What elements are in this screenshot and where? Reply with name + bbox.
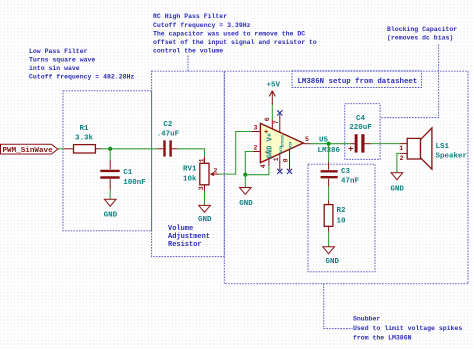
annotation box high pass filter xyxy=(152,71,225,256)
wire R1 to C2 xyxy=(101,148,158,150)
wire RV1 wiper to op-amp pin 3 xyxy=(219,132,252,175)
svg-text:GND: GND xyxy=(326,258,340,266)
wire C1 to ground xyxy=(109,190,111,200)
annotation box low pass filter xyxy=(63,91,152,231)
svg-text:control the volume: control the volume xyxy=(153,48,223,55)
svg-text:GND: GND xyxy=(390,185,404,193)
svg-text:R2: R2 xyxy=(337,207,347,215)
annotation box datasheet label xyxy=(292,71,422,88)
svg-text:offset of the input signal and: offset of the input signal and resistor … xyxy=(153,39,317,46)
svg-text:Blocking Capacitor: Blocking Capacitor xyxy=(387,26,457,33)
svg-text:4: 4 xyxy=(260,164,267,168)
wire R2 to ground xyxy=(328,232,330,247)
svg-text:Cutoff frequency = 482.28Hz: Cutoff frequency = 482.28Hz xyxy=(29,74,134,81)
junction node A (R1/C1) xyxy=(108,147,112,151)
svg-text:(removes dc bias): (removes dc bias) xyxy=(387,35,453,42)
svg-text:RC High Pass Filter: RC High Pass Filter xyxy=(153,13,227,20)
pin 5 stub xyxy=(303,136,310,144)
svg-text:GAIN: GAIN xyxy=(279,146,283,154)
svg-text:8: 8 xyxy=(283,158,290,162)
svg-text:Speaker: Speaker xyxy=(436,153,468,161)
svg-text:RV1: RV1 xyxy=(183,165,197,173)
svg-text:3.3k: 3.3k xyxy=(75,134,94,142)
svg-text:+: + xyxy=(348,145,353,155)
wire pin 5 to C4 xyxy=(310,143,351,145)
svg-text:2: 2 xyxy=(400,155,404,162)
svg-text:LM386N setup from datasheet: LM386N setup from datasheet xyxy=(298,78,418,86)
svg-text:C3: C3 xyxy=(341,168,351,176)
note snubber xyxy=(353,316,462,342)
pin 8 stub xyxy=(283,149,290,170)
capacitor C4 xyxy=(348,115,372,155)
resistor R1 xyxy=(64,125,101,153)
wire junction down to C1 xyxy=(109,149,111,161)
op-amp U5 LM386 xyxy=(260,123,303,162)
junction node B (pin2/pin4/gnd) xyxy=(243,173,247,177)
no-connect X pin 7 xyxy=(277,110,282,115)
svg-text:The capacitor was used to remo: The capacitor was used to remove the DC xyxy=(153,30,305,37)
ground (speaker) xyxy=(390,173,404,194)
wire C3 to R2 xyxy=(328,186,330,200)
svg-text:6: 6 xyxy=(264,117,271,121)
svg-text:7: 7 xyxy=(273,120,280,124)
speaker LS1 xyxy=(399,128,467,169)
callout line blocking capacitor note xyxy=(380,45,439,118)
svg-text:10k: 10k xyxy=(183,175,197,183)
wire pin 6 to +5V xyxy=(271,103,273,120)
potentiometer RV1 xyxy=(183,157,219,191)
capacitor C1 xyxy=(100,161,146,190)
junction node C (output/snubber) xyxy=(327,142,331,146)
svg-text:Adjustment: Adjustment xyxy=(168,233,210,241)
svg-text:5: 5 xyxy=(305,136,309,143)
note volume adjustment resistor xyxy=(168,225,210,249)
global label PWM_SinWave xyxy=(1,144,58,155)
svg-text:C2: C2 xyxy=(163,121,173,129)
svg-text:Low Pass Filter: Low Pass Filter xyxy=(29,48,88,55)
note low pass filter xyxy=(29,48,134,81)
ground (RV1) xyxy=(198,205,212,223)
svg-text:220uF: 220uF xyxy=(349,124,372,132)
svg-text:Turns square wave: Turns square wave xyxy=(29,56,95,63)
pin 3 stub xyxy=(252,124,261,131)
wire pin 2 to ground net xyxy=(245,152,253,175)
wire RV1 to ground xyxy=(204,191,206,205)
svg-text:GND: GND xyxy=(104,211,118,219)
reference U5 xyxy=(318,137,341,155)
svg-text:GND: GND xyxy=(239,200,253,208)
svg-text:.47uF: .47uF xyxy=(157,131,180,139)
annotation box snubber xyxy=(308,164,375,272)
svg-text:LS1: LS1 xyxy=(436,143,450,151)
resistor R2 xyxy=(324,201,346,232)
pin 7 stub xyxy=(273,114,280,132)
svg-text:BYPASS: BYPASS xyxy=(281,135,285,147)
wire C4 to speaker pin 1 xyxy=(371,143,401,145)
svg-text:from the LM386N: from the LM386N xyxy=(353,335,412,342)
svg-text:47nF: 47nF xyxy=(341,178,360,186)
svg-text:Resistor: Resistor xyxy=(168,241,202,249)
svg-text:2: 2 xyxy=(213,168,217,175)
svg-text:1: 1 xyxy=(399,145,403,152)
no-connect X pin 8 xyxy=(287,169,292,174)
svg-text:GND V+: GND V+ xyxy=(267,133,275,158)
wire junction down to ground xyxy=(244,175,246,188)
pin 6 stub xyxy=(264,117,273,129)
svg-text:Cutoff frequency = 3.39Hz: Cutoff frequency = 3.39Hz xyxy=(153,22,251,29)
svg-text:PWM_SinWave: PWM_SinWave xyxy=(3,147,54,155)
svg-text:1: 1 xyxy=(273,157,280,161)
power +5V xyxy=(267,82,281,105)
pin 4 stub xyxy=(260,159,269,169)
callout line snubber note xyxy=(324,284,353,329)
wire junction to pin 4 xyxy=(245,166,269,175)
svg-text:Volume: Volume xyxy=(168,225,193,233)
annotation box C4 blocking capacitor xyxy=(345,104,380,160)
svg-text:Snubber: Snubber xyxy=(353,316,380,323)
annotation box LM386N setup xyxy=(224,71,468,284)
svg-text:GAIN: GAIN xyxy=(289,142,293,150)
note LM386N setup from datasheet xyxy=(298,78,418,86)
pin 1 stub xyxy=(273,154,280,170)
svg-text:2: 2 xyxy=(254,144,258,151)
svg-text:C1: C1 xyxy=(123,169,133,177)
svg-text:1: 1 xyxy=(199,158,206,162)
svg-text:R1: R1 xyxy=(79,125,89,133)
svg-text:+5V: +5V xyxy=(267,82,281,90)
wire speaker pin 2 to ground xyxy=(397,153,401,172)
wire C2 to RV1 top xyxy=(177,149,204,158)
capacitor C3 xyxy=(321,162,360,187)
svg-text:100nF: 100nF xyxy=(123,179,146,187)
note RC high pass filter xyxy=(153,13,317,54)
ground (R2) xyxy=(323,247,340,266)
svg-text:3: 3 xyxy=(254,124,258,131)
ground (C1) xyxy=(104,199,118,219)
wire output junction down to C3 xyxy=(328,144,330,163)
ground (op-amp) xyxy=(239,188,253,208)
pin 2 stub xyxy=(253,144,260,151)
wire PWM label to R1 xyxy=(58,148,65,150)
callout line RC high pass note xyxy=(187,56,189,72)
svg-text:10: 10 xyxy=(337,217,347,225)
note blocking capacitor xyxy=(387,26,457,42)
svg-text:into sin wave: into sin wave xyxy=(29,65,80,72)
svg-text:Used to limit voltage spikes: Used to limit voltage spikes xyxy=(353,325,462,332)
no-connect X pin 1 xyxy=(277,169,282,174)
svg-text:GND: GND xyxy=(198,216,212,224)
svg-text:3: 3 xyxy=(198,186,205,190)
svg-text:C4: C4 xyxy=(356,115,366,123)
capacitor C2 xyxy=(157,121,180,157)
